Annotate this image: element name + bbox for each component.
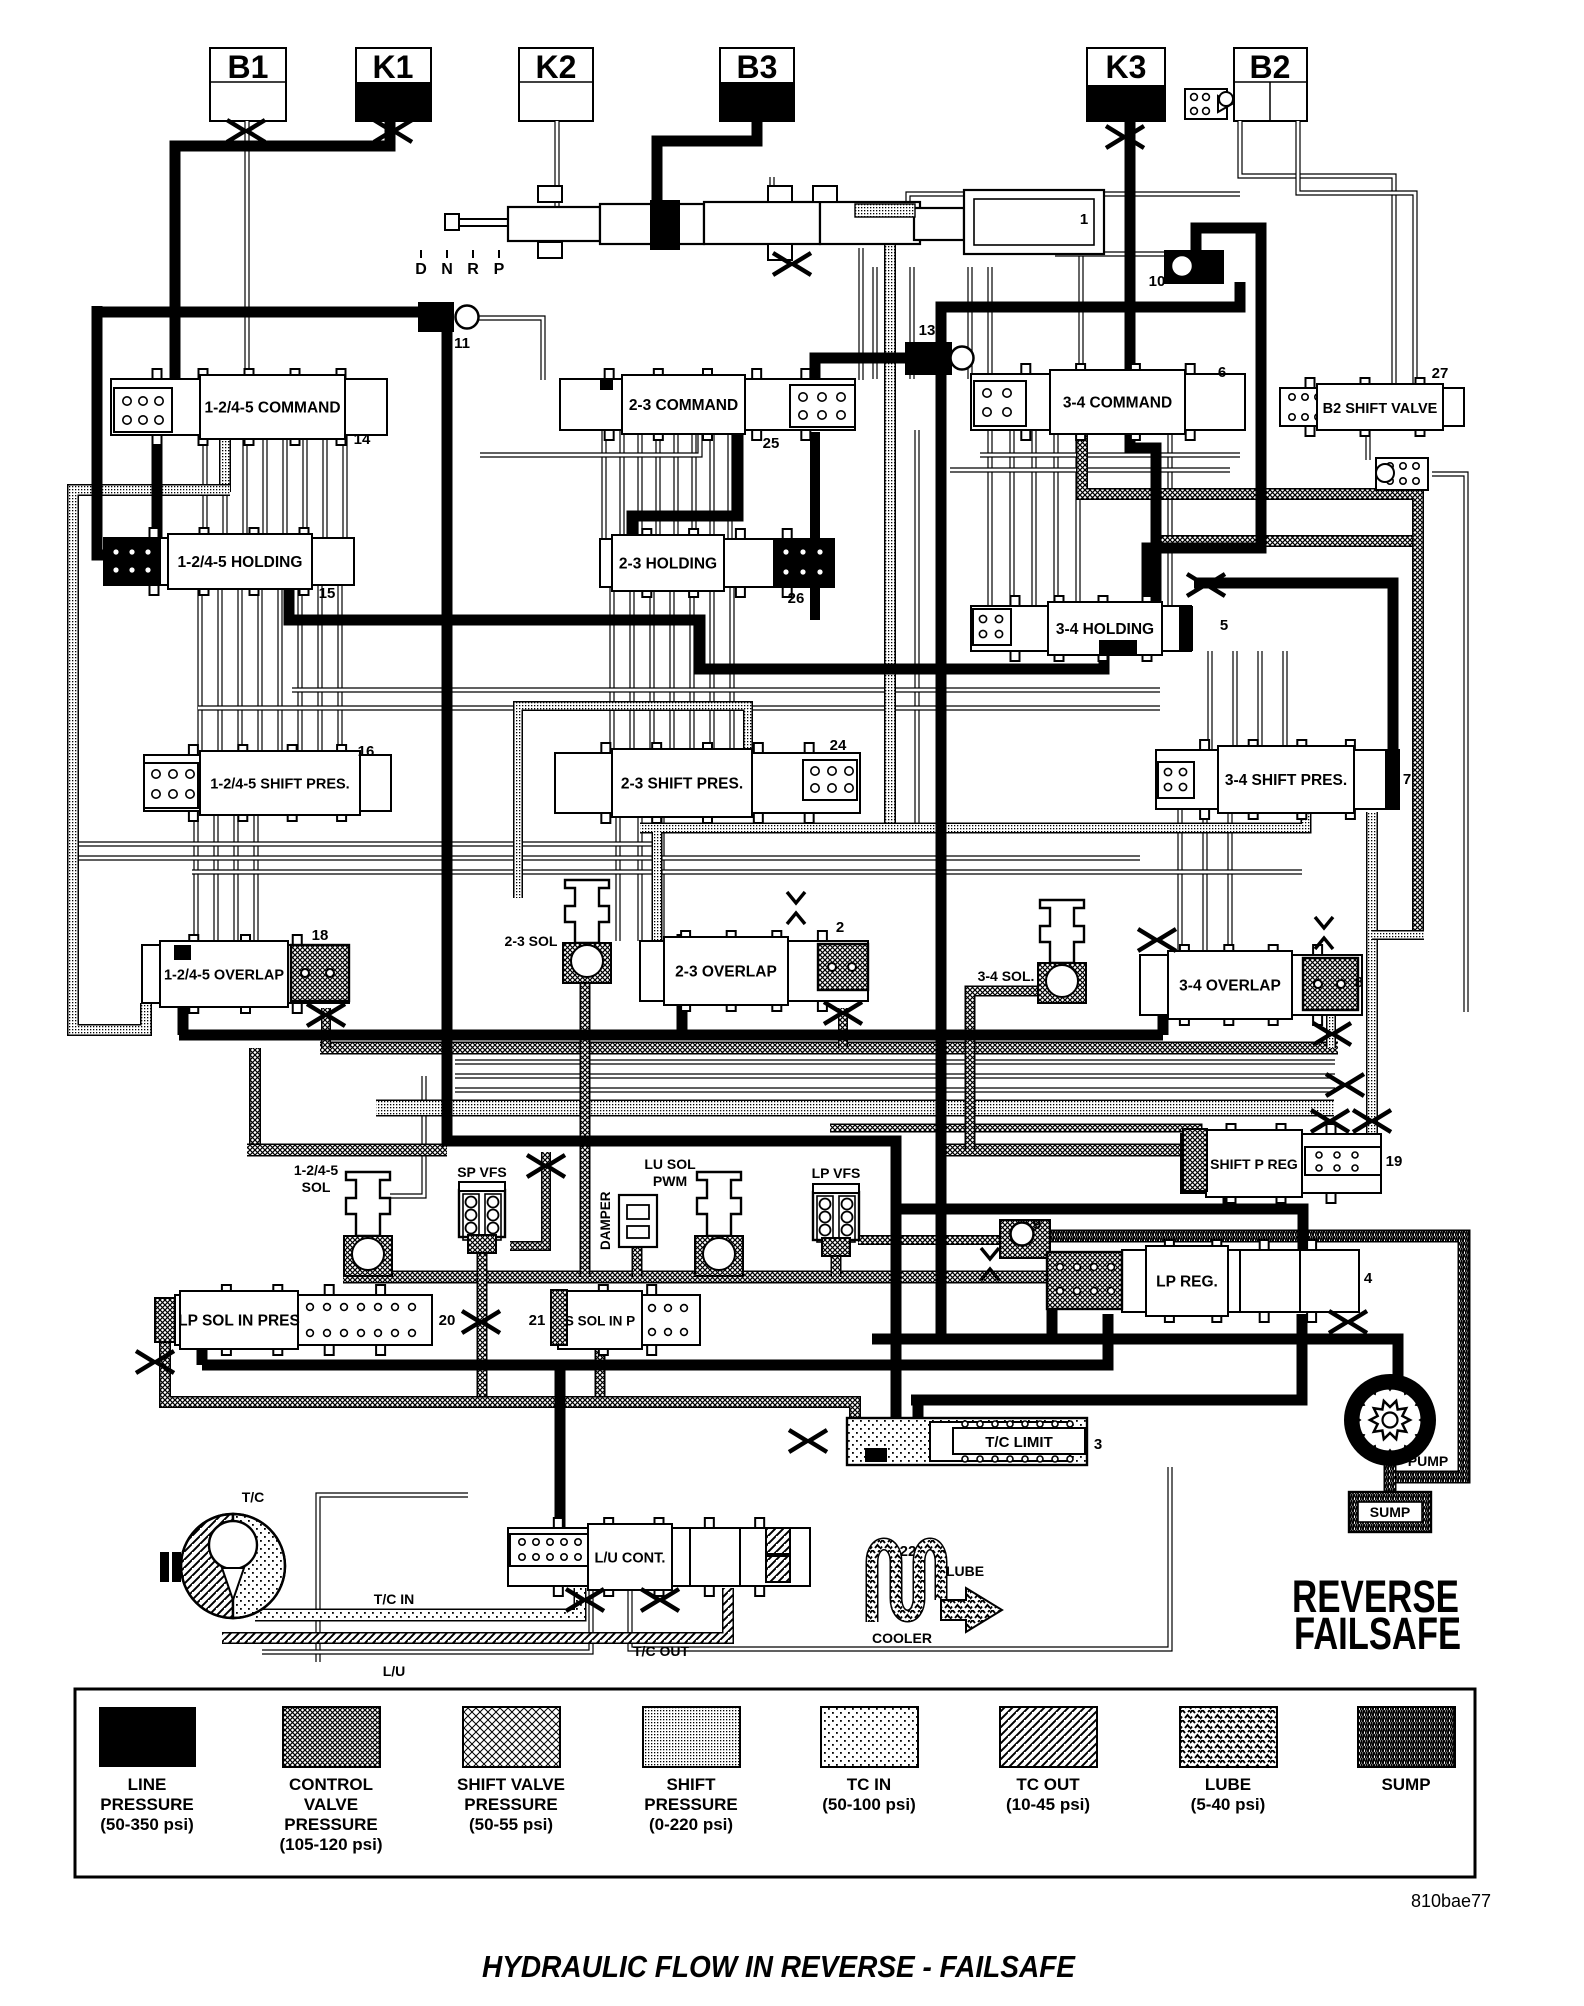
- control-valve corridor: manifold y1150: [247, 1144, 447, 1157]
- pipe: L/U line: [262, 1588, 591, 1652]
- pipe bundle 3-4 command-holding #1: [987, 430, 992, 606]
- valve 14 1-2/4-5 COMMAND: [111, 379, 387, 435]
- svg-text:SUMP: SUMP: [1370, 1504, 1410, 1520]
- line-pressure arm: 1-2/4-5 overlap riser: [178, 948, 189, 1035]
- svg-text:L/U: L/U: [383, 1663, 406, 1679]
- svg-text:2-3 HOLDING: 2-3 HOLDING: [619, 556, 717, 573]
- svg-text:21: 21: [529, 1312, 546, 1329]
- pipe: B2 circuit upper: [1240, 121, 1394, 389]
- line-pressure arm: 3-4 holding to 3-4 shift pres via x1393: [1194, 583, 1393, 752]
- svg-text:L/U CONT.: L/U CONT.: [595, 1551, 666, 1567]
- check ball 13: [951, 347, 974, 370]
- clutch box B2: [1234, 48, 1307, 121]
- pipe bundle left holding-shiftpres #1: [197, 585, 202, 755]
- shift-pressure corridor: shift pres manifold y828: [640, 800, 1306, 941]
- svg-text:(50-55 psi): (50-55 psi): [469, 1815, 553, 1834]
- pipe: 1-2/4-5 sol signal: [390, 1076, 424, 1196]
- svg-text:3-4 COMMAND: 3-4 COMMAND: [1063, 395, 1172, 412]
- pipe bundle left command-holding #3: [242, 435, 247, 538]
- pipe: L/U cont to T/C limit return: [630, 1467, 1170, 1649]
- LP VFS: [813, 1192, 859, 1240]
- control-valve corridor: 3-4 command drop to right wall: [1082, 430, 1418, 930]
- svg-text:LU SOL: LU SOL: [644, 1156, 696, 1172]
- spring box of valve 7: [1158, 762, 1194, 798]
- spring box of valve 16: [144, 763, 198, 808]
- svg-text:SHIFT VALVE: SHIFT VALVE: [457, 1775, 565, 1794]
- svg-text:6: 6: [1218, 364, 1226, 381]
- svg-text:3-4 HOLDING: 3-4 HOLDING: [1056, 621, 1154, 638]
- pipe bundle left holding-shiftpres #8: [337, 585, 342, 755]
- line-pressure arm: 3-4 overlap riser: [1158, 962, 1169, 1035]
- pipe upper right y470: [950, 467, 1230, 472]
- pipe bundle left holding-shiftpres #3: [237, 585, 242, 755]
- legend swatch SUMP: [1358, 1707, 1455, 1767]
- line-pressure arm: junction10 down to junction13: [941, 282, 1240, 344]
- spool dividers of valve 22: [690, 1528, 740, 1586]
- 3-4 solenoid: [1040, 900, 1084, 963]
- hatched cap of valve 19: [1183, 1129, 1207, 1191]
- valve 16 1-2/4-5 SHIFT PRES.: [144, 755, 391, 811]
- svg-text:2-3 OVERLAP: 2-3 OVERLAP: [675, 964, 777, 981]
- check block under B2 shift valve: [1376, 458, 1428, 490]
- line-pressure arm: shift P reg output: [1223, 1190, 1234, 1209]
- shift-pressure corridor: manual valve R drop x890: [884, 215, 896, 826]
- svg-text:D: D: [415, 261, 427, 278]
- valve 6 3-4 COMMAND: [971, 374, 1245, 430]
- control-valve corridor: right mid horizontal y541: [1160, 535, 1412, 547]
- svg-text:SOL: SOL: [302, 1179, 331, 1195]
- shift-pressure corridor: loop above 2-3 shift pres: [518, 706, 748, 898]
- long pipe y872: [192, 869, 1302, 874]
- valve 18 1-2/4-5 OVERLAP: [142, 945, 349, 1003]
- svg-text:1-2/4-5: 1-2/4-5: [294, 1162, 339, 1178]
- restrictor symbol #19: [1326, 1074, 1344, 1096]
- long pipe y690: [292, 687, 1160, 692]
- cooler coil: [872, 1544, 941, 1622]
- pipe bundle left command-holding #2: [222, 435, 227, 538]
- line-pressure arm: 2-3 overlap riser: [677, 934, 688, 1035]
- svg-text:3: 3: [1094, 1436, 1102, 1453]
- svg-text:3-4 SOL.: 3-4 SOL.: [978, 968, 1035, 984]
- spring box of valve 6: [974, 381, 1026, 426]
- svg-text:SP VFS: SP VFS: [457, 1164, 507, 1180]
- control-valve stub under 2-3 overlap bowtie: [838, 1008, 848, 1048]
- svg-text:2-3 SHIFT PRES.: 2-3 SHIFT PRES.: [621, 776, 743, 793]
- valve 25 2-3 COMMAND: [560, 379, 855, 430]
- pipe bundle mid holding-shiftpres #7: [729, 587, 734, 753]
- B1 feed pipe: [244, 121, 249, 380]
- legend swatch LUBE: [1180, 1707, 1277, 1767]
- line-pressure trunk: main vertical x447: [447, 312, 1303, 1252]
- svg-text:P: P: [494, 261, 505, 278]
- line-pressure arm: junction13 left into 2-3 command spring box: [815, 358, 910, 385]
- svg-text:(0-220 psi): (0-220 psi): [649, 1815, 733, 1834]
- pipe: manual valve R continuation x917: [914, 430, 919, 826]
- control-valve stub under 1-2/4-5 overlap bowtie: [321, 1008, 331, 1048]
- svg-text:13: 13: [919, 322, 936, 339]
- svg-text:26: 26: [788, 590, 805, 607]
- manual valve assembly 1: [445, 186, 1104, 260]
- shift-pressure corridor: valve 19 right stem: [1366, 812, 1378, 1188]
- svg-text:VALVE: VALVE: [304, 1795, 358, 1814]
- junction 11 block: [418, 302, 454, 332]
- line-pressure arm: junction10 up-over to 3-4 command: [1147, 228, 1261, 607]
- check ball 9: [1011, 1223, 1034, 1246]
- pipe bundle 3-4 shiftpres-overlap #1: [1177, 809, 1182, 955]
- pipe: manual valve port to B2 run upper: [769, 177, 774, 202]
- valve 27 B2 SHIFT VALVE: [1280, 388, 1464, 426]
- spring of valve 21: [649, 1305, 656, 1312]
- svg-text:PUMP: PUMP: [1408, 1453, 1448, 1469]
- svg-text:TC OUT: TC OUT: [1016, 1775, 1080, 1794]
- svg-text:(50-100 psi): (50-100 psi): [822, 1795, 916, 1814]
- pipe bundle left shiftpres-overlap #3: [233, 811, 238, 945]
- pipe bundle left shiftpres-overlap #2: [213, 811, 218, 945]
- shift-pressure corridor: right wall elbow: [1372, 930, 1424, 940]
- 2-3 solenoid: [565, 880, 609, 943]
- svg-text:3-4 OVERLAP: 3-4 OVERLAP: [1179, 978, 1281, 995]
- accumulator of valve 4: [1047, 1252, 1122, 1309]
- svg-text:1-2/4-5 HOLDING: 1-2/4-5 HOLDING: [178, 554, 303, 571]
- check valve chevrons at ball 9: [981, 1248, 999, 1280]
- long pipe y1076: [455, 1073, 1335, 1078]
- svg-text:K2: K2: [536, 49, 577, 85]
- valve 19 SHIFT P REG: [1181, 1134, 1381, 1193]
- pipe bundle mid command-holding #8: [727, 430, 732, 539]
- shift-valve-pressure corridor: command left riser: [219, 385, 231, 492]
- svg-text:T/C LIMIT: T/C LIMIT: [985, 1434, 1053, 1451]
- valve 20 LP SOL IN PRES: [175, 1295, 432, 1345]
- svg-text:14: 14: [354, 431, 371, 448]
- sump corridor: LP reg overflow to pump suction: [1035, 1236, 1464, 1477]
- valve 21 S SOL IN P: [555, 1295, 700, 1345]
- manual valve detent D N R P: [421, 250, 499, 258]
- torque converter T/C: [160, 1514, 285, 1618]
- pipe bundle mid shiftpres-overlap #2: [637, 813, 642, 941]
- svg-text:LP SOL IN PRES: LP SOL IN PRES: [178, 1313, 300, 1330]
- tc-in corridor: T/C to L/U control: [255, 1588, 580, 1615]
- control-valve corridor: LP VFS to check ball 9: [858, 1235, 1002, 1245]
- pipe bundle left holding-shiftpres #6: [297, 585, 302, 755]
- control-valve corridor: 1-2/4-5 sol stem: [363, 1258, 374, 1277]
- svg-text:1-2/4-5 OVERLAP: 1-2/4-5 OVERLAP: [164, 968, 284, 984]
- restrictor symbol #8: [1138, 929, 1156, 951]
- legend swatch CONTROL: [283, 1707, 380, 1767]
- pipe bundle mid command-holding #7: [709, 430, 714, 539]
- pipe: manual valve to 2-3 command: [858, 248, 863, 380]
- line-pressure arm: 2-3 holding left loop: [632, 432, 738, 542]
- pipe bundle left command-holding #5: [282, 435, 287, 538]
- spring box of valve 5: [973, 609, 1011, 645]
- pipe bundle mid holding-shiftpres #2: [629, 587, 634, 753]
- svg-text:8: 8: [1355, 974, 1363, 991]
- pipe bundle mid command-holding #5: [673, 430, 678, 539]
- spring box of valve 24: [803, 760, 857, 800]
- control-valve corridor y1121: [830, 1128, 1198, 1140]
- pipe: B2 shift valve to check block: [1365, 426, 1370, 460]
- line-pressure trunk: y1400 manifold: [911, 1314, 1302, 1400]
- svg-text:LINE: LINE: [128, 1775, 167, 1794]
- pipe: manual valve to junction 10: [1055, 251, 1164, 256]
- pipe bundle left command-holding #6: [302, 435, 307, 538]
- pipe bundle left holding-shiftpres #4: [257, 585, 262, 755]
- restrictor symbol #9: [527, 1155, 545, 1177]
- line-pressure trunk: header y312 into junction 11: [92, 307, 418, 318]
- hatched cap of valve 21: [551, 1290, 567, 1345]
- pipe bundle 3-4 holding-shiftpres #2: [1232, 651, 1237, 750]
- svg-text:10: 10: [1149, 273, 1166, 290]
- svg-text:16: 16: [358, 743, 375, 760]
- svg-text:2: 2: [836, 919, 844, 936]
- pipe bundle left command-holding #4: [262, 435, 267, 538]
- svg-text:LP VFS: LP VFS: [812, 1165, 861, 1181]
- svg-text:15: 15: [319, 585, 336, 602]
- line-pressure arm: T/C limit top riser: [913, 1400, 924, 1424]
- pipe bundle mid holding-shiftpres #3: [649, 587, 654, 753]
- pipe bundle manual-to-2-3command #2: [909, 267, 914, 379]
- valve 3 T/C LIMIT: [847, 1418, 1087, 1465]
- svg-text:K1: K1: [373, 49, 414, 85]
- legend swatch TC IN: [821, 1707, 918, 1767]
- pipe bundle mid shiftpres-overlap #3: [659, 813, 664, 941]
- restrictor symbol #13: [789, 1430, 807, 1452]
- pipe: B2 circuit lower: [1298, 121, 1415, 389]
- control-valve corridor: 3-4 sol elbow: [970, 955, 1062, 1150]
- SP VFS: [459, 1190, 505, 1237]
- control-valve corridor: LU sol stem: [714, 1258, 725, 1277]
- damper: [619, 1195, 657, 1247]
- pipe bundle left shiftpres-overlap #1: [193, 811, 198, 945]
- line-pressure trunk: left drop x97: [97, 306, 112, 555]
- pipe bundle left command-holding #8: [342, 435, 347, 538]
- svg-text:(105-120 psi): (105-120 psi): [280, 1835, 383, 1854]
- pipe: check block to right edge drop: [1432, 474, 1466, 1012]
- restrictor symbol #18: [1313, 1023, 1331, 1045]
- junction 10 block: [1164, 250, 1224, 284]
- restrictor symbol #14: [566, 1589, 584, 1611]
- right black cap of valve 5: [1179, 606, 1193, 651]
- svg-text:T/C OUT: T/C OUT: [633, 1643, 689, 1659]
- spring box of valve 25: [790, 385, 855, 427]
- control-valve corridor: SP VFS stem down through trunk: [477, 1250, 488, 1404]
- black port tab 2-3 command top-left: [600, 379, 613, 390]
- restrictor symbol #10: [462, 1311, 480, 1333]
- svg-text:1: 1: [1080, 211, 1088, 228]
- pipe: manual valve to 3-4 command: [1078, 245, 1083, 375]
- svg-text:2-3 COMMAND: 2-3 COMMAND: [629, 397, 738, 414]
- line-pressure trunk: pump feed y1339: [872, 1339, 1398, 1378]
- restrictor symbol #1: [227, 120, 245, 142]
- restrictor symbol #11: [136, 1351, 154, 1373]
- line-pressure arm: 2-3 holding spring to trunk: [810, 586, 820, 620]
- pipe bundle mid holding-shiftpres #6: [709, 587, 714, 753]
- svg-text:SHIFT P REG: SHIFT P REG: [1210, 1156, 1298, 1172]
- tc-out corridor: T/C out run: [222, 1588, 728, 1638]
- pipe bundle left shiftpres-overlap #4: [253, 811, 258, 945]
- long pipe y858: [78, 855, 1140, 860]
- svg-text:B2 SHIFT VALVE: B2 SHIFT VALVE: [1323, 401, 1438, 417]
- valve 15 1-2/4-5 HOLDING: [104, 538, 354, 585]
- legend box: [75, 1689, 1475, 1877]
- legend swatch SHIFT VALVE: [463, 1707, 560, 1767]
- black spring box of valve 26: [774, 539, 834, 587]
- hatched cap of valve 20: [155, 1298, 175, 1342]
- pipe bundle left holding-shiftpres #5: [277, 585, 282, 755]
- control-valve corridor: SP VFS to trunk riser: [510, 1152, 546, 1246]
- svg-text:1-2/4-5 SHIFT PRES.: 1-2/4-5 SHIFT PRES.: [210, 777, 349, 793]
- svg-text:PRESSURE: PRESSURE: [284, 1815, 378, 1834]
- long pipe y708: [198, 705, 1160, 710]
- holes block of valve 19: [1305, 1147, 1381, 1175]
- control-valve corridor: 2-3 sol stem: [580, 966, 591, 1277]
- valve 7 3-4 SHIFT PRES.: [1156, 750, 1399, 809]
- svg-text:FAILSAFE: FAILSAFE: [1294, 1608, 1461, 1659]
- accumulator of valve 18: [291, 945, 349, 1001]
- valve 22 L/U CONT.: [508, 1528, 810, 1586]
- tc-out blocks at valve 22 right: [766, 1528, 790, 1554]
- restrictor symbol #3: [1106, 126, 1124, 148]
- line-pressure trunk: K3 through 3-4 command to 3-4 holding: [1130, 420, 1156, 607]
- svg-text:(5-40 psi): (5-40 psi): [1191, 1795, 1266, 1814]
- svg-text:R: R: [467, 261, 479, 278]
- svg-text:19: 19: [1386, 1153, 1403, 1170]
- pipe bundle 3-4 holding-shiftpres #4: [1282, 651, 1287, 750]
- small check block left of B2: [1185, 89, 1227, 119]
- svg-text:25: 25: [763, 435, 780, 452]
- svg-text:COOLER: COOLER: [872, 1630, 932, 1646]
- pipe bundle 3-4 command-holding #2: [1009, 430, 1014, 606]
- line-pressure trunk: K3 drop to 3-4 command: [1125, 121, 1136, 376]
- check ball 9 housing: [1000, 1220, 1050, 1258]
- restrictor symbol #12: [1329, 1311, 1347, 1333]
- valve 2 2-3 OVERLAP: [640, 941, 868, 1001]
- svg-text:1-2/4-5 COMMAND: 1-2/4-5 COMMAND: [204, 400, 340, 417]
- holes block of valve 22: [510, 1534, 588, 1566]
- pipe bundle manual-to-2-3command #4: [987, 267, 992, 379]
- svg-text:7: 7: [1403, 771, 1411, 788]
- svg-text:B3: B3: [737, 49, 778, 85]
- line-pressure trunk: bottom manifold y1365: [202, 1314, 1108, 1365]
- pipe bundle 3-4 shiftpres-overlap #2: [1202, 809, 1207, 955]
- check ball 10: [1171, 255, 1193, 277]
- black spring box of valve 15: [104, 540, 160, 583]
- legend swatch SHIFT: [643, 1707, 740, 1767]
- pipe bundle 3-4 shiftpres-overlap #3: [1227, 809, 1232, 955]
- junction 13 block: [905, 342, 952, 375]
- line-pressure arm: 2-3 holding spring riser: [810, 432, 820, 539]
- svg-text:PRESSURE: PRESSURE: [464, 1795, 558, 1814]
- pipe: ball 11 to 2-3 command: [478, 318, 543, 380]
- line-pressure trunk: B1/K1 header: [175, 121, 390, 392]
- svg-text:27: 27: [1432, 365, 1449, 382]
- svg-text:N: N: [441, 261, 453, 278]
- restrictor symbol #15: [641, 1589, 659, 1611]
- clutch box B3: [720, 48, 794, 121]
- line-pressure arm: drop to T/C limit: [891, 1209, 902, 1430]
- restrictor symbol #7: [824, 1002, 842, 1024]
- svg-text:11: 11: [454, 335, 470, 352]
- svg-text:2-3 SOL: 2-3 SOL: [505, 933, 558, 949]
- control-valve corridor: solenoid supply y1277: [343, 1271, 1047, 1284]
- control-valve corridor: damper stem: [632, 1245, 643, 1277]
- accumulator of valve 2: [818, 944, 868, 990]
- pipe bundle mid shiftpres-overlap #1: [615, 813, 620, 941]
- line-pressure arm: LP REG accumulator drop: [1047, 1307, 1058, 1339]
- pipe bundle 3-4 command-holding #5: [1075, 430, 1080, 606]
- legend swatch LINE: [99, 1707, 196, 1767]
- K2 feed pipe: [554, 121, 559, 206]
- restrictor symbol #2: [374, 120, 392, 142]
- svg-text:3-4 SHIFT PRES.: 3-4 SHIFT PRES.: [1225, 772, 1347, 789]
- legend swatch TC OUT: [1000, 1707, 1097, 1767]
- valve 8 3-4 OVERLAP: [1140, 955, 1362, 1015]
- svg-text:LP REG.: LP REG.: [1156, 1274, 1218, 1291]
- pipe bundle 3-4 command-holding #3: [1031, 430, 1036, 606]
- pipe bundle 3-4 holding-shiftpres #1: [1207, 651, 1212, 750]
- svg-text:PRESSURE: PRESSURE: [100, 1795, 194, 1814]
- line-pressure trunk: overlap row manifold y1035: [179, 1030, 1163, 1041]
- svg-text:810bae77: 810bae77: [1411, 1891, 1491, 1911]
- svg-text:T/C: T/C: [242, 1489, 265, 1505]
- 1-2/4-5 solenoid: [346, 1172, 390, 1236]
- svg-text:LUBE: LUBE: [1205, 1775, 1251, 1794]
- svg-text:9: 9: [1033, 1216, 1041, 1233]
- pipe bundle mid command-holding #6: [691, 430, 696, 539]
- line-pressure trunk: B3 drop to manual valve: [657, 121, 757, 202]
- valve 5 3-4 HOLDING: [971, 606, 1191, 651]
- restrictor symbol #16: [1353, 1110, 1371, 1132]
- svg-text:24: 24: [830, 737, 847, 754]
- pipe bundle mid holding-shiftpres #5: [689, 587, 694, 753]
- pipe bundle left holding-shiftpres #7: [317, 585, 322, 755]
- valve 24 2-3 SHIFT PRES.: [555, 753, 860, 813]
- pipe bundle 3-4 holding-shiftpres #3: [1257, 651, 1262, 750]
- shift-valve-pressure corridor: left wall: [73, 490, 230, 1030]
- svg-text:PWM: PWM: [653, 1173, 687, 1189]
- line-pressure arm: drop to L/U control: [555, 1365, 566, 1578]
- long pipe y1062: [455, 1059, 1335, 1064]
- check chevrons above 2-3 overlap: [787, 892, 805, 924]
- svg-text:SUMP: SUMP: [1381, 1775, 1430, 1794]
- svg-text:T/C IN: T/C IN: [374, 1591, 414, 1607]
- pipe bundle left command-holding #7: [322, 435, 327, 538]
- line-pressure arm: 1-2/4-5 command to holding drop x157: [152, 428, 163, 545]
- pipe bundle manual-to-2-3command #1: [872, 267, 877, 379]
- pump: [1345, 1375, 1435, 1465]
- svg-text:4: 4: [1364, 1270, 1373, 1287]
- check ball 11: [456, 306, 479, 329]
- control-valve corridor: S SOL stem: [595, 1332, 606, 1404]
- control-valve corridor y1150 right of trunk: [941, 1144, 1181, 1157]
- control-valve corridor: overlap manifold y1048: [320, 1042, 1338, 1055]
- pipe upper mid y455: [480, 430, 700, 455]
- restrictor symbol #5: [1187, 574, 1205, 596]
- long pipe y1090: [455, 1087, 1335, 1092]
- spring of valve 20: [307, 1304, 314, 1311]
- svg-text:DAMPER: DAMPER: [598, 1191, 613, 1250]
- spool dividers of valve 4: [1240, 1250, 1300, 1312]
- svg-text:B1: B1: [228, 49, 269, 85]
- pipe bundle mid command-holding #1: [601, 430, 606, 539]
- line-pressure trunk: holding row manifold y620/669: [289, 584, 1104, 669]
- svg-text:18: 18: [312, 927, 329, 944]
- svg-text:CONTROL: CONTROL: [289, 1775, 373, 1794]
- clutch box K2: [519, 48, 593, 121]
- pipe bundle left command-holding #1: [202, 435, 207, 538]
- svg-text:K3: K3: [1106, 49, 1147, 85]
- accumulator of valve 8: [1303, 958, 1358, 1010]
- restrictor symbol #17: [1311, 1110, 1329, 1132]
